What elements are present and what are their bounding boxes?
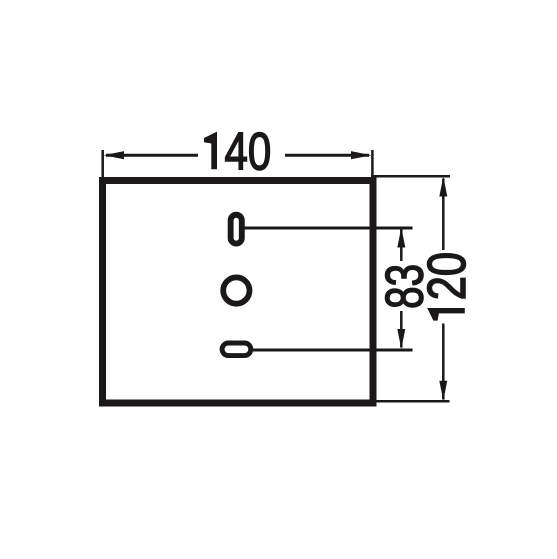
svg-text:20: 20: [418, 252, 477, 300]
svg-text:40: 40: [225, 123, 272, 182]
